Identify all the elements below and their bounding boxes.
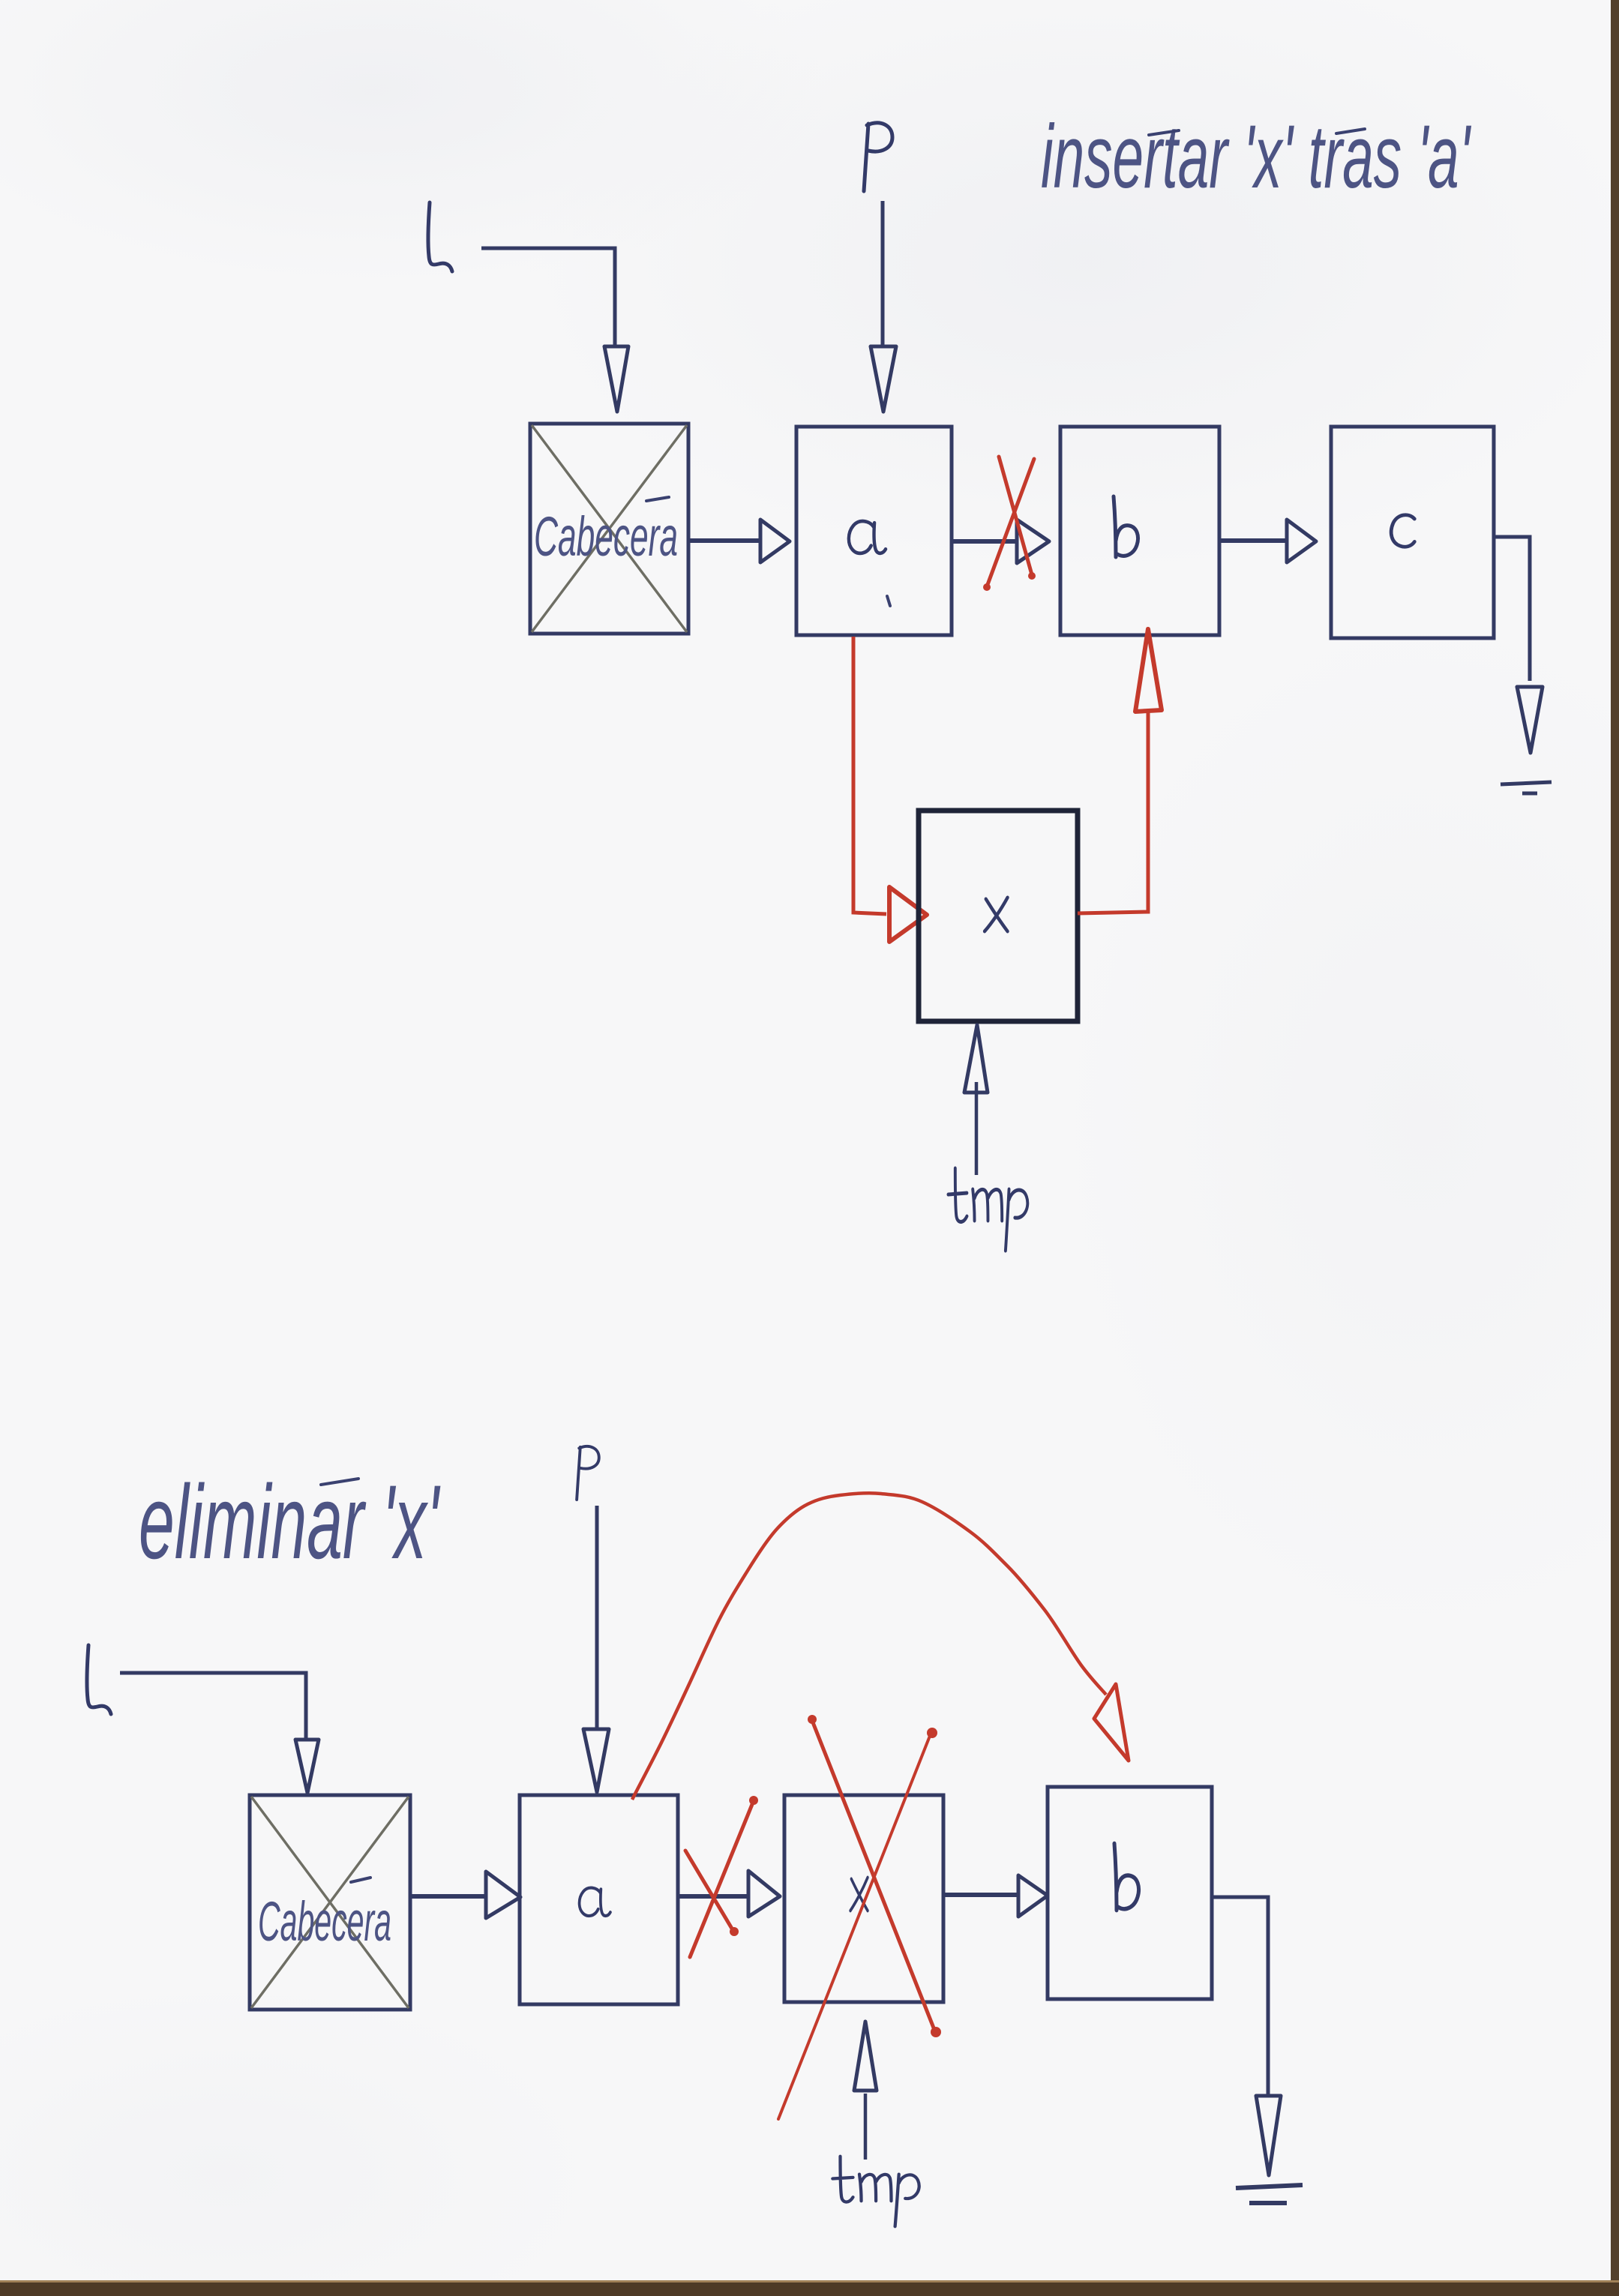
svg-text:eliminar 'x': eliminar 'x' [139, 1463, 441, 1581]
svg-text:Cabecera: Cabecera [534, 505, 678, 568]
svg-text:Cabecera: Cabecera [258, 1890, 391, 1953]
svg-text:insertar 'x' tras 'a': insertar 'x' tras 'a' [1041, 106, 1472, 207]
